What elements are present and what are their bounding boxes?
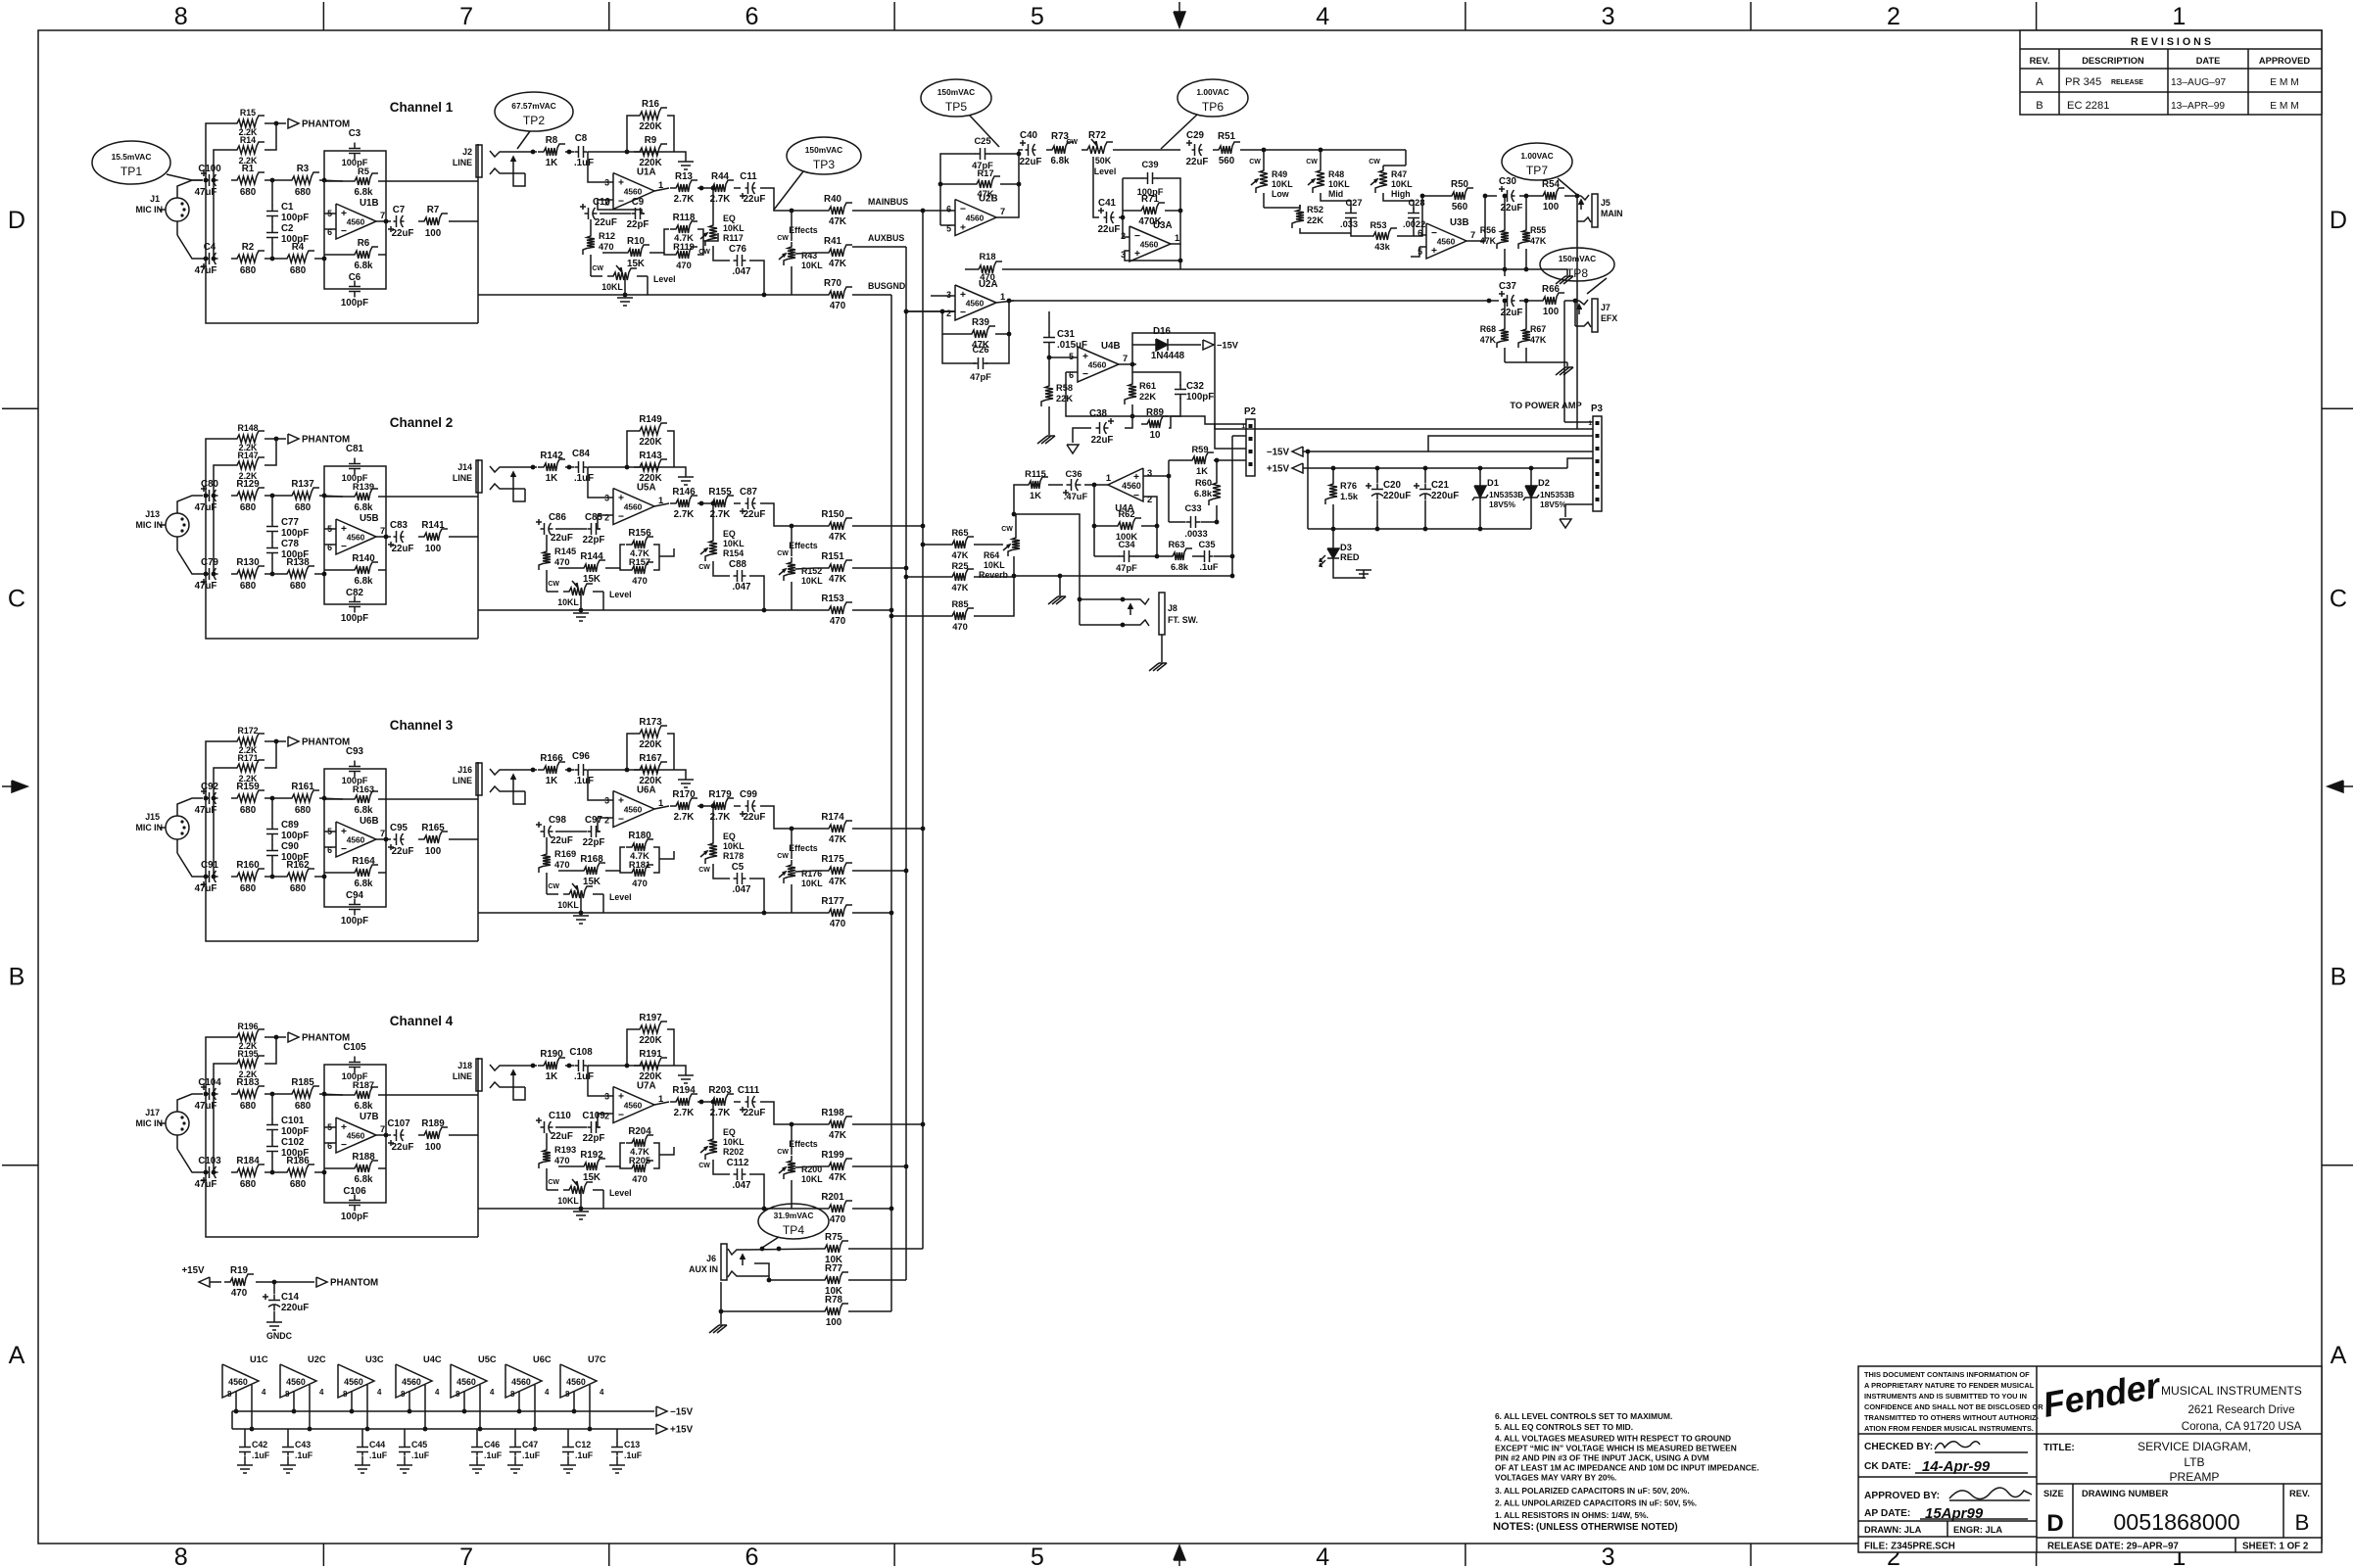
resistor R59 1K xyxy=(1186,452,1214,464)
wire xyxy=(649,229,669,253)
wire xyxy=(206,439,231,494)
resistor R16 220K xyxy=(634,108,667,119)
svg-text:DRAWN: JLA: DRAWN: JLA xyxy=(1864,1525,1922,1535)
svg-text:470: 470 xyxy=(632,879,648,888)
svg-text:22uF: 22uF xyxy=(551,1131,573,1142)
wire xyxy=(749,1174,764,1209)
junction xyxy=(1524,194,1529,199)
svg-text:AUX IN: AUX IN xyxy=(689,1264,718,1274)
wire xyxy=(795,871,823,872)
capacitor C83 22uF xyxy=(394,536,397,538)
svg-text:R187: R187 xyxy=(353,1080,374,1090)
junction xyxy=(272,1280,277,1285)
svg-text:PHANTOM: PHANTOM xyxy=(302,435,350,446)
wire xyxy=(513,1081,525,1100)
svg-text:C34: C34 xyxy=(1118,540,1135,549)
title block xyxy=(1858,1366,2322,1552)
svg-text:8: 8 xyxy=(285,1390,290,1399)
svg-text:R65: R65 xyxy=(951,528,968,538)
svg-text:R6: R6 xyxy=(358,238,370,249)
capacitor C109 22pF xyxy=(588,1126,592,1128)
capacitor C45 .1uF xyxy=(404,1429,406,1444)
wire xyxy=(319,798,343,799)
wire xyxy=(1307,451,1309,529)
svg-text:−: − xyxy=(1082,369,1088,380)
svg-text:OF AT LEAST 1M AC IMPEDANCE AN: OF AT LEAST 1M AC IMPEDANCE AND 10M DC I… xyxy=(1495,1463,1759,1473)
wire xyxy=(605,847,625,871)
wire xyxy=(376,838,391,840)
resistor R166 1K xyxy=(538,762,565,774)
junction xyxy=(531,768,536,773)
junction xyxy=(762,1207,767,1212)
svg-text:C94: C94 xyxy=(346,890,363,901)
svg-text:10KL: 10KL xyxy=(557,1196,579,1206)
junction xyxy=(365,1427,370,1432)
svg-text:0051868000: 0051868000 xyxy=(2113,1509,2239,1535)
svg-text:C86: C86 xyxy=(549,512,566,523)
connector J13 MIC IN xyxy=(166,513,189,537)
node PHANTOM xyxy=(316,1277,327,1287)
svg-text:R18: R18 xyxy=(979,252,995,261)
svg-text:GNDC: GNDC xyxy=(266,1331,293,1341)
wire xyxy=(703,233,718,241)
svg-text:7: 7 xyxy=(380,829,385,838)
svg-text:P3: P3 xyxy=(1591,404,1604,414)
svg-text:MIC IN: MIC IN xyxy=(136,520,163,530)
svg-text:47pF: 47pF xyxy=(970,372,991,382)
svg-text:R41: R41 xyxy=(824,236,841,247)
junction xyxy=(204,494,209,499)
svg-text:47K: 47K xyxy=(829,834,846,845)
svg-text:4560: 4560 xyxy=(1140,240,1159,250)
svg-text:7: 7 xyxy=(459,1544,473,1568)
capacitor C14 220uF xyxy=(273,1295,275,1301)
svg-text:R183: R183 xyxy=(236,1077,260,1088)
svg-text:B: B xyxy=(2331,964,2347,991)
capacitor C3 100pF xyxy=(354,143,356,149)
svg-text:R177: R177 xyxy=(821,896,843,907)
potentiometer EQ R202 10KL xyxy=(705,1134,717,1160)
potentiometer R43 10KL Effects xyxy=(784,242,795,265)
svg-text:CONFIDENCE AND SHALL NOT BE DI: CONFIDENCE AND SHALL NOT BE DISCLOSED OR xyxy=(1864,1402,2043,1411)
test point TP6 xyxy=(1177,79,1248,117)
junction xyxy=(904,309,909,314)
connector J15 MIC IN xyxy=(166,816,189,839)
wire xyxy=(590,219,592,231)
svg-text:100: 100 xyxy=(425,1142,442,1153)
resistor R155 2.7K xyxy=(706,496,734,507)
wire xyxy=(386,180,478,182)
svg-text:R203: R203 xyxy=(708,1085,732,1096)
svg-text:R195: R195 xyxy=(237,1049,258,1059)
svg-text:A: A xyxy=(2036,76,2043,88)
svg-text:C77: C77 xyxy=(281,517,299,528)
svg-text:22K: 22K xyxy=(1307,215,1323,225)
resistor R160 680 xyxy=(231,869,264,880)
resistor R5 6.8k xyxy=(349,173,378,185)
junction xyxy=(533,1427,538,1432)
svg-text:C29: C29 xyxy=(1186,130,1204,141)
wire xyxy=(598,1126,601,1128)
junction xyxy=(274,121,279,126)
wire xyxy=(1143,475,1169,477)
svg-text:−: − xyxy=(341,1140,347,1151)
potentiometer R64 10KL Reverb xyxy=(1008,533,1020,556)
svg-text:8: 8 xyxy=(343,1390,348,1399)
svg-text:R199: R199 xyxy=(821,1150,844,1161)
zone tick xyxy=(322,2,324,30)
wire xyxy=(760,188,823,211)
wire xyxy=(580,1190,582,1208)
wire xyxy=(791,884,793,913)
wire xyxy=(1303,451,1593,452)
svg-text:R190: R190 xyxy=(540,1049,563,1060)
wire xyxy=(1048,357,1050,381)
svg-text:R202: R202 xyxy=(723,1147,744,1157)
wire xyxy=(602,592,604,610)
wire xyxy=(264,123,276,150)
resistor R70 470 xyxy=(823,287,852,299)
wire xyxy=(791,266,793,295)
wire xyxy=(712,503,714,536)
svg-text:−: − xyxy=(618,815,624,826)
wire xyxy=(1125,416,1132,428)
capacitor C96 .1uF xyxy=(575,769,579,771)
wire xyxy=(734,805,741,807)
wire xyxy=(605,1143,625,1166)
svg-text:R157: R157 xyxy=(629,557,650,567)
wire AUXBUS vertical xyxy=(905,247,907,1280)
wire channel ground rail xyxy=(478,609,823,611)
svg-text:CW: CW xyxy=(698,249,710,256)
resistor R175 47K xyxy=(823,863,852,875)
center arrow right xyxy=(2331,785,2353,787)
wire xyxy=(555,528,587,530)
svg-text:R193: R193 xyxy=(554,1145,576,1155)
svg-text:.047: .047 xyxy=(732,266,750,277)
svg-text:.1uF: .1uF xyxy=(522,1450,541,1460)
junction xyxy=(250,1427,255,1432)
svg-text:220uF: 220uF xyxy=(1383,491,1411,501)
wire xyxy=(1180,416,1246,424)
ground xyxy=(469,1464,485,1466)
svg-text:CK DATE:: CK DATE: xyxy=(1864,1461,1911,1472)
svg-text:C79: C79 xyxy=(201,557,218,568)
svg-text:47K: 47K xyxy=(1530,335,1547,345)
junction xyxy=(212,796,216,801)
resistor R58 22K vertical xyxy=(1041,381,1053,406)
junction xyxy=(212,1170,216,1175)
svg-text:D: D xyxy=(2046,1510,2063,1537)
wire xyxy=(271,221,273,227)
junction xyxy=(699,501,704,506)
svg-text:C21: C21 xyxy=(1431,480,1449,491)
svg-text:R76: R76 xyxy=(1340,481,1357,491)
wire xyxy=(477,180,479,221)
wire xyxy=(324,544,336,546)
wire xyxy=(214,1064,231,1094)
svg-text:R139: R139 xyxy=(353,482,374,492)
junction xyxy=(1503,267,1508,272)
svg-text:47K: 47K xyxy=(951,550,968,560)
svg-text:C88: C88 xyxy=(729,559,746,570)
junction xyxy=(1215,520,1220,525)
svg-text:4. ALL VOLTAGES MEASURED WITH: 4. ALL VOLTAGES MEASURED WITH RESPECT TO… xyxy=(1495,1433,1731,1443)
svg-text:6.8k: 6.8k xyxy=(354,261,373,271)
junction xyxy=(711,1100,716,1105)
op-amp U5C xyxy=(451,1364,487,1398)
wire xyxy=(513,483,525,501)
op-amp U4B xyxy=(1078,347,1119,382)
svg-text:+15V: +15V xyxy=(181,1265,205,1276)
junction xyxy=(889,1207,894,1212)
junction xyxy=(762,293,767,298)
junction xyxy=(625,150,630,155)
capacitor C95 22uF xyxy=(394,838,397,840)
svg-text:1K: 1K xyxy=(1196,466,1208,476)
center arrow left xyxy=(2,785,24,787)
wire xyxy=(974,576,1014,578)
svg-text:.1uF: .1uF xyxy=(369,1450,388,1460)
svg-text:6.8k: 6.8k xyxy=(354,1101,373,1112)
svg-text:100: 100 xyxy=(425,846,442,857)
zone tick xyxy=(893,1544,895,1566)
wire xyxy=(1161,635,1163,662)
capacitor C8 .1uF xyxy=(575,151,579,153)
wire -15V rail xyxy=(232,1410,654,1412)
svg-text:22K: 22K xyxy=(1139,392,1156,402)
junction xyxy=(270,796,275,801)
svg-text:1: 1 xyxy=(1175,233,1179,243)
svg-text:22uF: 22uF xyxy=(1501,308,1523,318)
junction xyxy=(921,1122,926,1127)
svg-text:10KL: 10KL xyxy=(801,879,823,888)
wire xyxy=(674,1066,686,1075)
capacitor C77 100pF xyxy=(271,521,273,527)
svg-text:R170: R170 xyxy=(672,789,696,800)
svg-text:1K: 1K xyxy=(546,776,557,786)
wire xyxy=(176,537,178,550)
svg-text:6.8k: 6.8k xyxy=(354,187,373,198)
wire xyxy=(251,1385,253,1429)
svg-text:220K: 220K xyxy=(639,121,661,132)
junction xyxy=(1178,209,1183,214)
svg-text:8: 8 xyxy=(174,3,188,30)
ground xyxy=(397,1464,412,1466)
svg-text:.1uF: .1uF xyxy=(574,158,594,168)
svg-text:7: 7 xyxy=(1123,354,1128,363)
svg-text:C: C xyxy=(8,585,25,612)
svg-text:−: − xyxy=(341,844,347,855)
wire xyxy=(598,200,642,214)
wire xyxy=(940,224,955,226)
svg-text:.1uF: .1uF xyxy=(574,1071,594,1082)
svg-text:J16: J16 xyxy=(457,765,472,775)
svg-text:47K: 47K xyxy=(829,574,846,585)
wire xyxy=(760,806,823,829)
potentiometer R49 10KL Low xyxy=(1256,166,1268,193)
svg-text:ENGR: JLA: ENGR: JLA xyxy=(1953,1525,2002,1535)
svg-text:470: 470 xyxy=(952,622,968,632)
svg-text:C95: C95 xyxy=(390,823,408,833)
svg-text:R E V I S I O N S: R E V I S I O N S xyxy=(2131,36,2211,48)
svg-text:−: − xyxy=(618,512,624,523)
junction xyxy=(1007,332,1012,337)
svg-text:+: + xyxy=(1133,472,1139,483)
junction xyxy=(1524,299,1529,304)
resistor R162 680 xyxy=(281,869,314,880)
junction xyxy=(623,293,628,298)
wire xyxy=(324,1126,336,1128)
svg-text:.1uF: .1uF xyxy=(252,1450,270,1460)
svg-text:22uF: 22uF xyxy=(1091,435,1114,446)
svg-text:3. ALL POLARIZED CAPACITORS IN: 3. ALL POLARIZED CAPACITORS IN uF: 50V, … xyxy=(1495,1486,1690,1496)
junction xyxy=(204,1092,209,1097)
wire xyxy=(319,180,343,181)
wire xyxy=(1157,555,1167,557)
junction xyxy=(292,1409,297,1414)
wire xyxy=(791,211,793,241)
svg-text:R179: R179 xyxy=(708,789,732,800)
svg-text:4560: 4560 xyxy=(624,187,643,197)
resistor R129 680 xyxy=(231,488,264,499)
capacitor C33 .0033 xyxy=(1186,521,1191,523)
power flag +15V xyxy=(1292,463,1303,473)
svg-text:U7C: U7C xyxy=(588,1354,606,1364)
svg-text:AUXBUS: AUXBUS xyxy=(868,233,904,243)
svg-text:R15: R15 xyxy=(240,108,256,118)
svg-text:E M M: E M M xyxy=(2270,77,2299,88)
junction xyxy=(1012,574,1017,579)
svg-text:4: 4 xyxy=(1316,3,1329,30)
svg-text:47pF: 47pF xyxy=(1116,563,1137,573)
svg-text:C11: C11 xyxy=(740,171,757,182)
wire xyxy=(654,503,669,506)
svg-text:ATION FROM FENDER MUSICAL INST: ATION FROM FENDER MUSICAL INSTRUMENTS. xyxy=(1864,1424,2034,1433)
wire xyxy=(1066,372,1132,416)
connector J18 LINE xyxy=(476,1059,482,1091)
resistor R4 680 xyxy=(281,251,314,262)
junction xyxy=(579,911,584,916)
capacitor C46 .1uF xyxy=(476,1429,478,1444)
test point TP5 xyxy=(921,79,991,117)
svg-text:REV.: REV. xyxy=(2030,56,2050,66)
svg-text:R145: R145 xyxy=(554,546,576,556)
capacitor C4 47uF xyxy=(206,258,210,260)
svg-text:CW: CW xyxy=(698,867,710,874)
resistor R172 2.2K xyxy=(231,734,264,745)
capacitor C41 22uF xyxy=(1104,216,1107,218)
op-amp U2C xyxy=(280,1364,316,1398)
svg-text:R185: R185 xyxy=(291,1077,314,1088)
svg-text:Channel 3: Channel 3 xyxy=(390,718,454,733)
resistor R193 470 vertical xyxy=(539,1145,551,1168)
svg-text:31.9mVAC: 31.9mVAC xyxy=(774,1211,814,1220)
svg-text:150mVAC: 150mVAC xyxy=(937,87,975,97)
svg-text:EQ: EQ xyxy=(723,214,736,223)
svg-text:.1uF: .1uF xyxy=(624,1450,643,1460)
resistor R198 47K xyxy=(823,1117,852,1128)
wire xyxy=(264,1171,281,1173)
svg-text:C85: C85 xyxy=(585,512,602,523)
svg-text:R61: R61 xyxy=(1139,381,1156,391)
svg-text:CW: CW xyxy=(548,1179,559,1186)
junction xyxy=(904,1164,909,1169)
svg-text:Channel 1: Channel 1 xyxy=(390,100,454,115)
junction xyxy=(790,1122,794,1127)
wire xyxy=(791,1124,793,1155)
junction xyxy=(274,437,279,442)
svg-text:100pF: 100pF xyxy=(341,613,368,624)
potentiometer R47 10KL High xyxy=(1375,166,1387,193)
svg-text:R151: R151 xyxy=(821,551,844,562)
junction xyxy=(1375,466,1380,471)
junction xyxy=(938,182,943,187)
svg-text:C106: C106 xyxy=(343,1186,366,1197)
wire xyxy=(697,502,706,504)
wire xyxy=(667,116,674,152)
svg-text:NOTES:: NOTES: xyxy=(1493,1521,1534,1533)
wire xyxy=(351,1392,353,1412)
svg-text:+15V: +15V xyxy=(1267,464,1290,475)
svg-text:R178: R178 xyxy=(723,851,744,861)
svg-text:4560: 4560 xyxy=(347,217,365,227)
svg-text:DESCRIPTION: DESCRIPTION xyxy=(2082,56,2144,66)
svg-text:22uF: 22uF xyxy=(1020,157,1042,167)
wire channel tap xyxy=(852,912,891,914)
wire xyxy=(565,151,574,153)
junction xyxy=(1478,527,1483,532)
svg-text:R118: R118 xyxy=(673,213,696,223)
svg-text:4560: 4560 xyxy=(402,1377,421,1387)
wire xyxy=(546,1168,548,1190)
center arrow bottom xyxy=(1178,1549,1180,1566)
svg-text:4560: 4560 xyxy=(228,1377,248,1387)
wire xyxy=(177,550,203,574)
svg-text:Corona, CA 91720 USA: Corona, CA 91720 USA xyxy=(2182,1420,2302,1433)
wire xyxy=(547,1189,558,1191)
svg-text:680: 680 xyxy=(240,805,257,816)
wire xyxy=(409,1392,410,1412)
wire xyxy=(1567,458,1593,468)
svg-text:J17: J17 xyxy=(145,1108,160,1117)
wire channel return xyxy=(206,180,478,323)
junction xyxy=(1130,414,1135,419)
ground xyxy=(1566,269,1568,275)
wire xyxy=(386,798,478,800)
junction xyxy=(1262,148,1267,153)
wire xyxy=(176,1135,178,1149)
resistor R196 2.2K xyxy=(231,1029,264,1041)
svg-text:C30: C30 xyxy=(1499,176,1516,187)
junction xyxy=(790,209,794,214)
wire efx line xyxy=(1009,300,1499,302)
svg-text:VOLTAGES MAY VARY BY 20%.: VOLTAGES MAY VARY BY 20%. xyxy=(1495,1473,1616,1483)
svg-text:R39: R39 xyxy=(972,317,989,328)
svg-text:R194: R194 xyxy=(672,1085,696,1096)
svg-text:CW: CW xyxy=(1249,159,1261,166)
svg-text:R1: R1 xyxy=(242,164,255,174)
resistor R159 680 xyxy=(231,790,264,802)
capacitor C1 100pF xyxy=(271,206,273,212)
svg-text:J7: J7 xyxy=(1601,303,1610,312)
power flag -15V xyxy=(1203,340,1214,350)
wire xyxy=(558,1165,578,1167)
svg-text:Reverb: Reverb xyxy=(979,570,1009,580)
resistor R85 470 xyxy=(946,608,974,620)
svg-text:TP3: TP3 xyxy=(813,158,835,171)
svg-text:R129: R129 xyxy=(236,479,260,490)
